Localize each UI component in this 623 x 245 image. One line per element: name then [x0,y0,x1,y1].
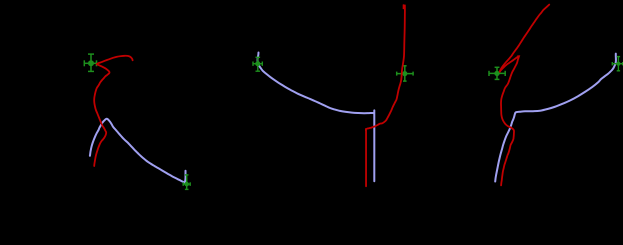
wire blue trajectory panel1 [90,119,186,183]
wire blue trajectory panel2 [258,53,375,182]
node marker B [183,175,190,190]
node marker D [397,66,413,81]
node marker C [253,57,262,71]
wire red start nub panel2 [402,5,404,9]
junction red cusp panel3 [517,55,520,58]
node marker E [489,67,505,79]
wire red trajectory panel2 [366,5,405,186]
node marker A [84,54,96,71]
node marker F [612,57,622,71]
wire red trajectory panel1 [94,56,132,166]
wire red trajectory panel3 [500,5,549,186]
wire blue trajectory panel3 [495,54,616,182]
